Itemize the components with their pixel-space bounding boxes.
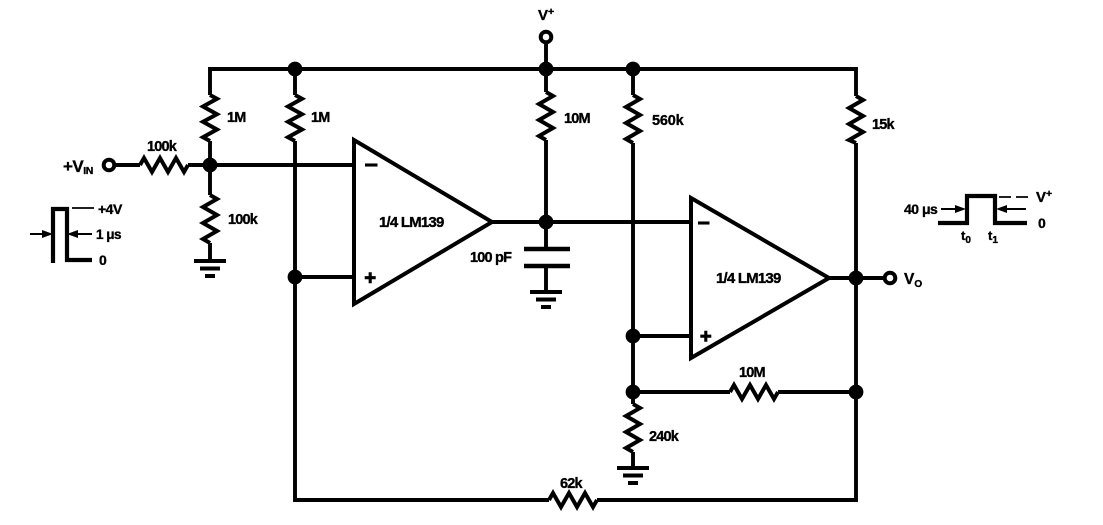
output pulse waveform annotation [904,188,1052,246]
resistor R4 100k to ground [203,195,259,243]
node feedback junction x=633 [626,385,641,400]
node input junction [203,158,218,173]
wire R8 right to node [778,390,856,394]
svg-text:100k: 100k [147,139,178,155]
terminal VO output with label [885,271,923,290]
wire node to R8 left [633,390,730,394]
wire vertical x=546 top lead [544,69,548,92]
node op2 plus junction [626,329,641,344]
svg-text:1M: 1M [227,110,246,126]
resistor R2 1M left [203,95,246,141]
node op1 output junction [539,215,554,230]
wire op2 plus input [633,334,691,338]
wire capacitor bottom plate to ground [544,268,548,292]
svg-text:0: 0 [99,252,107,268]
node junction dot top rail x=546 [539,62,554,77]
resistor R9 240k [626,404,680,452]
wire vertical x=633 top lead [631,69,635,95]
svg-text:1/4 LM139: 1/4 LM139 [379,214,444,231]
wire vertical x=295 from R3 through crossing down to bottom rail, and bottom rail left half [295,141,549,500]
svg-text:15k: 15k [872,117,896,133]
resistor R5 10M vertical [539,92,591,140]
input pulse waveform annotation [30,201,123,268]
svg-text:10M: 10M [739,365,766,381]
svg-text:+4V: +4V [98,201,123,217]
wire op1 plus input [295,275,354,279]
wire R2 bottom to input node [208,141,212,165]
wire V+ terminal stub [544,42,548,69]
ground under R9 [617,468,649,483]
wire R6 bottom down through crossing to node at y=392 [631,143,635,392]
node junction dot top rail x=295 [288,62,303,77]
wire input terminal to R1 [114,163,140,167]
svg-text:100 pF: 100 pF [470,250,512,266]
svg-text:62k: 62k [560,476,584,492]
wire top V+ rail with end corners [210,69,856,96]
wire vertical x=295 top lead [293,69,297,95]
ground under C1 [530,292,562,307]
terminal +VIN with label [63,157,114,177]
node output junction [849,271,864,286]
wire op2 output to terminal [829,276,885,280]
svg-text:240k: 240k [649,429,680,445]
node feedback junction x=856 [849,385,864,400]
wire R9 leads [631,392,635,468]
svg-text:1M: 1M [311,110,330,126]
resistor R7 15k [849,96,896,143]
terminal V+ supply with label [538,6,554,42]
resistor R6 560k [626,95,685,143]
wire R5 bottom to op1 output node [544,140,548,222]
resistor R8 10M feedback horizontal [730,365,778,399]
ground under R4 [194,261,226,276]
capacitor C1 100 pF [470,249,570,266]
svg-text:1 μs: 1 μs [96,227,121,242]
wire R4 leads [208,165,212,261]
svg-text:0: 0 [1038,215,1046,231]
op-amp U1 1/4 LM139 [354,140,492,304]
resistor R10 62k bottom [549,476,597,507]
wire vertical x=856 from R7 down to bottom rail and bottom rail right half [597,143,856,500]
wire R1 to op1 minus input [188,163,354,167]
svg-text:1/4 LM139: 1/4 LM139 [716,270,781,287]
op-amp U2 1/4 LM139 [691,198,829,358]
wire op1 output node to capacitor top plate [544,222,548,247]
wire op1 output to op2 minus input [492,220,691,224]
node op1 plus junction [288,270,303,285]
svg-text:100k: 100k [228,212,259,228]
resistor R3 1M second [288,95,330,141]
resistor R1 100k input series [140,139,188,172]
svg-text:40 μs: 40 μs [904,201,938,217]
svg-text:560k: 560k [652,113,685,129]
svg-text:10M: 10M [564,111,591,127]
node junction dot top rail x=633 [626,62,641,77]
